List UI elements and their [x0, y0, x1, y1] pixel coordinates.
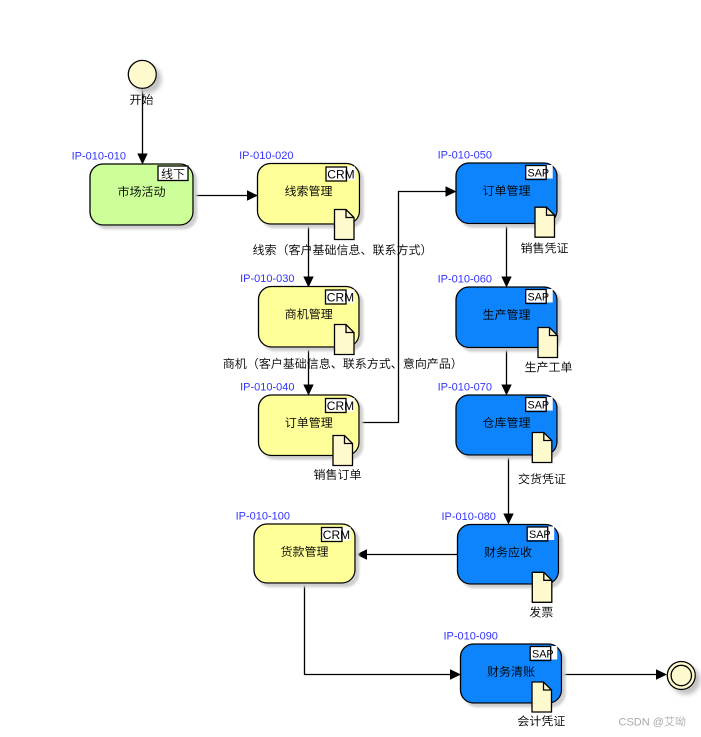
- title 商机管理: [286, 308, 333, 319]
- doc label 交货凭证: [519, 473, 566, 484]
- tag SAP on IP-010-080: [527, 527, 554, 541]
- svg-text:SAP: SAP: [528, 292, 550, 304]
- start event circle: [128, 60, 156, 88]
- svg-text:SAP: SAP: [528, 400, 550, 412]
- svg-text:IP-010-090: IP-010-090: [444, 631, 498, 643]
- document 交货凭证 at IP-010-070: [532, 433, 552, 463]
- wire start->IP-010-010: [142, 89, 144, 154]
- svg-text:IP-010-100: IP-010-100: [236, 511, 290, 523]
- document 发票 at IP-010-080: [532, 572, 552, 602]
- svg-text:IP-010-040: IP-010-040: [240, 382, 294, 394]
- wire IP-010-010 -> IP-010-020: [193, 195, 248, 197]
- tag SAP on IP-010-070: [526, 397, 553, 411]
- svg-text:SAP: SAP: [528, 168, 550, 180]
- tag CRM on IP-010-020: [326, 167, 355, 181]
- title 财务应收: [484, 546, 531, 557]
- doc label 销售订单: [314, 469, 361, 480]
- tag CRM on IP-010-040: [326, 398, 355, 412]
- start label 开始: [130, 94, 153, 105]
- wire IP-010-020 -> IP-010-030: [308, 224, 310, 277]
- tag CRM on IP-010-100: [322, 527, 351, 541]
- svg-text:IP-010-070: IP-010-070: [438, 382, 492, 394]
- wire IP-010-030 -> IP-010-040: [308, 347, 310, 385]
- task 财务应收 IP-010-080: [458, 525, 559, 585]
- end event circle: [667, 662, 695, 690]
- svg-text:IP-010-080: IP-010-080: [442, 511, 496, 523]
- tag 线下 on IP-010-010: [158, 166, 188, 181]
- document at IP-010-030: [335, 325, 355, 355]
- title 线索管理: [285, 185, 332, 196]
- document 销售凭证 at IP-010-050: [535, 207, 555, 237]
- annotation 线索（客户基础信息、联系方式）: [253, 244, 424, 255]
- doc label 销售凭证: [521, 242, 568, 253]
- doc label 发票: [530, 606, 553, 617]
- svg-text:SAP: SAP: [532, 649, 554, 661]
- tag SAP on IP-010-060: [526, 289, 553, 303]
- task 货款管理 IP-010-100: [254, 524, 355, 583]
- title 生产管理: [483, 309, 530, 320]
- svg-text:SAP: SAP: [529, 529, 551, 541]
- wire IP-010-090 -> end: [562, 674, 657, 676]
- tag SAP on IP-010-050: [526, 165, 553, 179]
- task 仓库管理 IP-010-070: [456, 395, 557, 455]
- wire IP-010-080 -> IP-010-100: [367, 554, 458, 556]
- svg-text:IP-010-030: IP-010-030: [240, 273, 294, 285]
- task 线索管理 IP-010-020: [258, 164, 360, 225]
- task 市场活动 IP-010-010: [90, 164, 193, 225]
- task 财务清账 IP-010-090: [461, 644, 562, 703]
- svg-text:IP-010-060: IP-010-060: [438, 274, 492, 286]
- task 订单管理 IP-010-050: [456, 163, 557, 224]
- tag SAP on IP-010-090: [530, 646, 557, 660]
- svg-text:IP-010-050: IP-010-050: [438, 150, 492, 162]
- doc label 生产工单: [525, 361, 572, 372]
- title 财务清账: [487, 666, 534, 677]
- tag CRM on IP-010-030: [326, 290, 355, 304]
- svg-text:IP-010-020: IP-010-020: [239, 150, 293, 162]
- wire IP-010-060 -> IP-010-070: [506, 347, 508, 385]
- document 会计凭证 at IP-010-090: [532, 682, 552, 712]
- document 生产工单 at IP-010-060: [538, 328, 558, 358]
- title 货款管理: [281, 546, 328, 557]
- title 仓库管理: [483, 417, 530, 428]
- task 商机管理 IP-010-030: [259, 287, 360, 348]
- document 线索 at IP-010-020: [335, 210, 355, 240]
- svg-text:CRM: CRM: [327, 290, 354, 304]
- title 订单管理: [285, 417, 332, 428]
- task 生产管理 IP-010-060: [456, 287, 557, 348]
- title 市场活动: [118, 186, 165, 197]
- doc label 会计凭证: [518, 715, 565, 726]
- wire IP-010-050 -> IP-010-060: [506, 224, 508, 277]
- wire IP-010-040 -> IP-010-050: [360, 192, 447, 423]
- task 订单管理 IP-010-040: [259, 395, 360, 456]
- wire IP-010-070 -> IP-010-080: [508, 455, 510, 514]
- svg-text:CRM: CRM: [323, 528, 350, 542]
- wire IP-010-100 -> IP-010-090: [305, 584, 451, 675]
- annotation 商机（客户基础信息、联系方式、意向产品）: [224, 358, 455, 369]
- svg-text:CRM: CRM: [327, 167, 354, 181]
- document 销售订单 at IP-010-040: [333, 436, 353, 466]
- svg-text:CSDN @: CSDN @: [619, 717, 664, 729]
- svg-text:CRM: CRM: [327, 399, 354, 413]
- svg-text:IP-010-010: IP-010-010: [72, 151, 126, 163]
- title 订单管理: [483, 185, 530, 196]
